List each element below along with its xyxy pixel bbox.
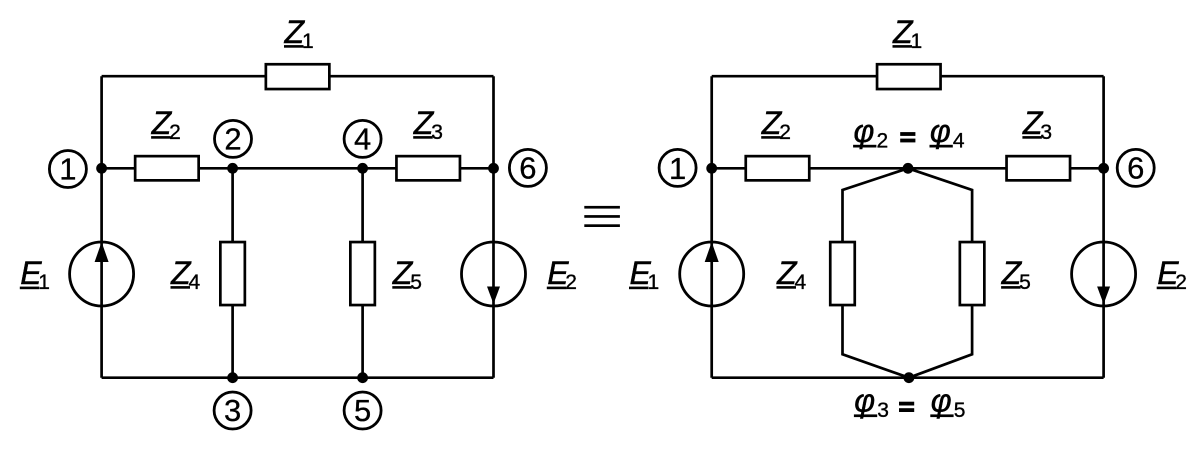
- value label Z5 (left circuit): [392, 255, 422, 294]
- value label E1 (left circuit): [20, 255, 50, 294]
- junction dot node 2 (left circuit): [227, 163, 238, 174]
- svg-text:4: 4: [189, 271, 201, 294]
- resistor Z4 (left circuit): [220, 242, 245, 305]
- resistor Z1 (right circuit): [877, 64, 941, 89]
- resistor Z2 (right circuit): [746, 156, 810, 180]
- svg-text:5: 5: [954, 399, 966, 422]
- svg-text:3: 3: [431, 121, 443, 144]
- junction dot node 3 (left circuit): [227, 372, 238, 383]
- junction dot node 6 (left circuit): [488, 163, 499, 174]
- net label phi2 = phi4 (merged top node, right circuit): [853, 113, 965, 153]
- wire: left circuit bottom branch (node 3 to node 5): [102, 376, 494, 379]
- value label Z1 (right circuit): [892, 14, 922, 53]
- svg-text:φ: φ: [854, 113, 875, 149]
- node label 2 (left circuit): [215, 120, 252, 157]
- resistor Z3 (right circuit): [1007, 156, 1071, 180]
- junction dot merged node 3=5 (right circuit): [904, 372, 915, 383]
- value label Z3 (right circuit): [1022, 105, 1052, 144]
- value label Z1 (left circuit): [284, 14, 314, 53]
- value label Z4 (right circuit): [776, 255, 807, 294]
- svg-text:5: 5: [1019, 271, 1031, 294]
- wire: left circuit left vertical (node 1 branch with source E1): [100, 76, 103, 378]
- wire: left circuit right vertical (node 6 branch with source E2): [492, 76, 495, 378]
- svg-text:2: 2: [1175, 271, 1187, 294]
- node label 6 (left circuit): [509, 149, 546, 186]
- svg-text:φ: φ: [854, 383, 875, 419]
- junction dot node 1 (left circuit): [96, 163, 107, 174]
- svg-text:4: 4: [354, 122, 371, 157]
- svg-text:2: 2: [565, 271, 577, 294]
- svg-text:5: 5: [354, 393, 371, 428]
- node label 3 (left circuit): [214, 392, 251, 429]
- source E1 (left circuit, arrow up): [70, 242, 134, 306]
- value label Z2 (left circuit): [151, 105, 181, 144]
- value label E2 (right circuit): [1157, 255, 1187, 294]
- resistor Z3 (left circuit): [396, 156, 460, 180]
- node label 4 (left circuit): [344, 120, 381, 157]
- wire: right circuit right vertical (node 6 branch with source E2): [1102, 76, 1105, 378]
- wire: right circuit Z4 bottom to merged bottom node: [843, 306, 909, 378]
- junction dot node 5 (left circuit): [357, 372, 368, 383]
- value label E2 (left circuit): [547, 255, 577, 294]
- wire: right circuit middle branch (node 1 - merged node - node 6): [712, 167, 1104, 170]
- node label 6 (right circuit): [1117, 149, 1154, 186]
- svg-text:2: 2: [224, 122, 241, 157]
- wire: right circuit bottom branch: [712, 376, 1104, 379]
- wire: left circuit branch node 4 to node 5: [361, 168, 364, 377]
- resistor Z1 (left circuit): [266, 64, 330, 89]
- value label Z5 (right circuit): [1001, 255, 1031, 294]
- wire: right circuit Z5 bottom to merged bottom node: [909, 306, 972, 378]
- net label phi3 = phi5 (merged bottom node, right circuit): [854, 383, 965, 423]
- wire: right circuit merged node to Z4 top: [843, 168, 909, 241]
- wire: right circuit merged node to Z5 top: [908, 168, 972, 241]
- wire: right circuit top branch: [712, 75, 1104, 78]
- value label Z4 (left circuit): [170, 255, 201, 294]
- junction dot node 4 (left circuit): [357, 163, 368, 174]
- svg-text:4: 4: [795, 271, 807, 294]
- svg-text:3: 3: [224, 393, 241, 428]
- node label 1 (right circuit): [659, 149, 696, 186]
- resistor Z2 (left circuit): [135, 156, 199, 180]
- junction dot node 6 (right circuit): [1098, 163, 1109, 174]
- svg-text:6: 6: [519, 151, 536, 186]
- value label Z2 (right circuit): [761, 105, 791, 144]
- source E2 (left circuit, arrow down): [462, 242, 526, 306]
- svg-text:φ: φ: [931, 383, 952, 419]
- wire: right circuit left vertical (node 1 branch with source E1): [710, 76, 713, 378]
- wire: left circuit middle branch (node 1 - node 2 - node 4 - node 6): [102, 167, 494, 170]
- svg-text:4: 4: [953, 130, 965, 153]
- equivalence sign between circuits: [584, 206, 620, 227]
- svg-text:1: 1: [59, 152, 76, 187]
- resistor Z5 (right circuit): [960, 242, 985, 305]
- wire: left circuit top branch: [102, 75, 494, 78]
- svg-text:1: 1: [911, 30, 923, 53]
- svg-text:1: 1: [38, 271, 50, 294]
- svg-text:2: 2: [779, 121, 791, 144]
- svg-text:1: 1: [302, 30, 314, 53]
- node label 5 (left circuit): [344, 392, 381, 429]
- svg-text:φ: φ: [930, 113, 951, 149]
- value label E1 (right circuit): [629, 255, 659, 294]
- svg-text:5: 5: [410, 271, 422, 294]
- resistor Z4 (right circuit): [830, 242, 855, 305]
- node label 1 (left circuit): [49, 151, 86, 188]
- svg-text:2: 2: [169, 121, 181, 144]
- svg-text:2: 2: [877, 130, 889, 153]
- svg-text:3: 3: [1040, 121, 1052, 144]
- svg-text:1: 1: [648, 271, 660, 294]
- svg-text:1: 1: [669, 151, 686, 186]
- source E2 (right circuit, arrow down): [1072, 242, 1136, 306]
- resistor Z5 (left circuit): [350, 242, 375, 305]
- svg-text:6: 6: [1127, 151, 1144, 186]
- value label Z3 (left circuit): [413, 105, 443, 144]
- svg-text:3: 3: [877, 399, 889, 422]
- wire: left circuit branch node 2 to node 3: [231, 168, 234, 377]
- junction dot merged node 2=4 (right circuit): [903, 163, 914, 174]
- junction dot node 1 (right circuit): [706, 163, 717, 174]
- source E1 (right circuit, arrow up): [680, 242, 744, 306]
